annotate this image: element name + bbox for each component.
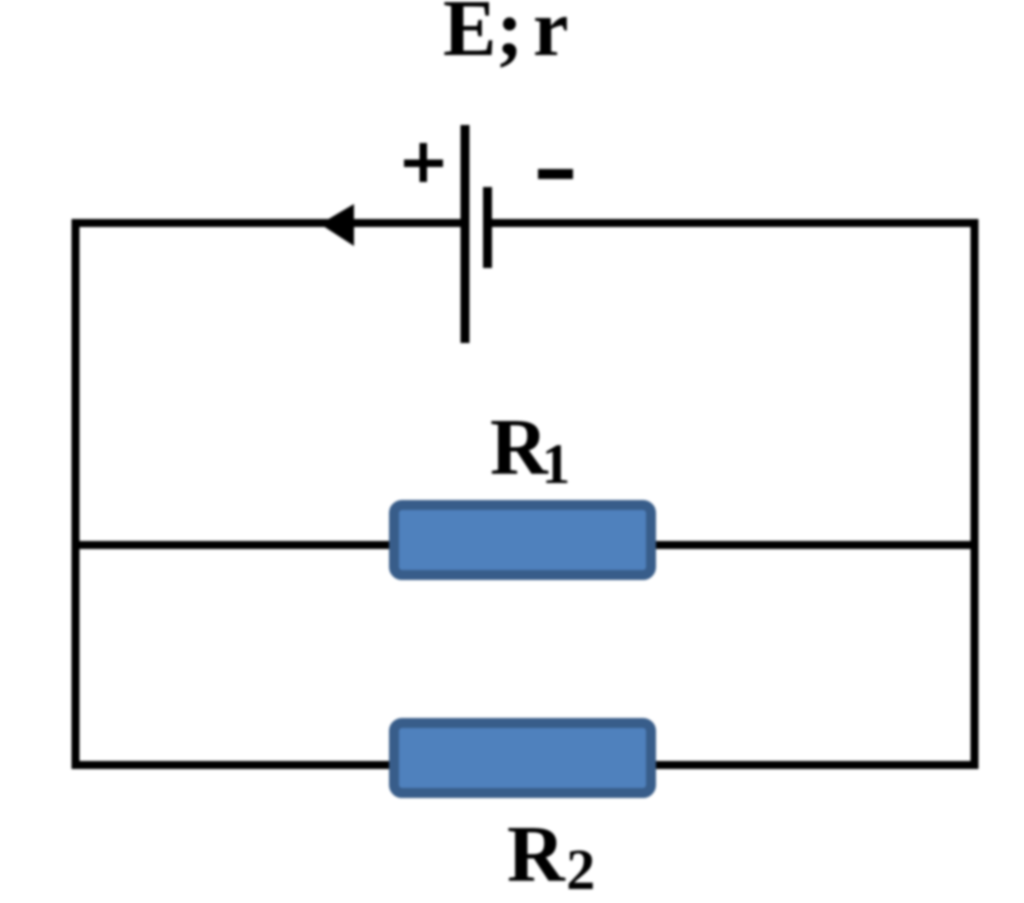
svg-text:E; r: E; r [443, 0, 569, 73]
plus sign label [404, 143, 443, 182]
battery B1 positive plate (long) [461, 125, 470, 343]
svg-text:R1: R1 [490, 404, 570, 496]
wire: left vertical [72, 219, 80, 769]
wire: bottom branch right segment (R2 to right wire) [654, 761, 979, 769]
wire: middle branch left segment (to R1) [72, 541, 392, 549]
current direction arrow on top wire (pointing left) [320, 204, 354, 246]
resistor R1 body [394, 505, 651, 575]
svg-text:R2: R2 [507, 811, 595, 902]
resistor R2 body [394, 723, 651, 793]
minus sign label [538, 169, 573, 179]
wire: bottom branch left segment (to R2) [72, 761, 392, 769]
wire: middle branch right segment (R1 to right wire) [654, 541, 979, 549]
wire: top right segment (battery - plate to right corner) [487, 219, 979, 227]
wire: top left segment (left corner to battery + plate) [72, 219, 466, 227]
battery B1 negative plate (short) [483, 187, 492, 268]
wire: right vertical [971, 219, 979, 769]
